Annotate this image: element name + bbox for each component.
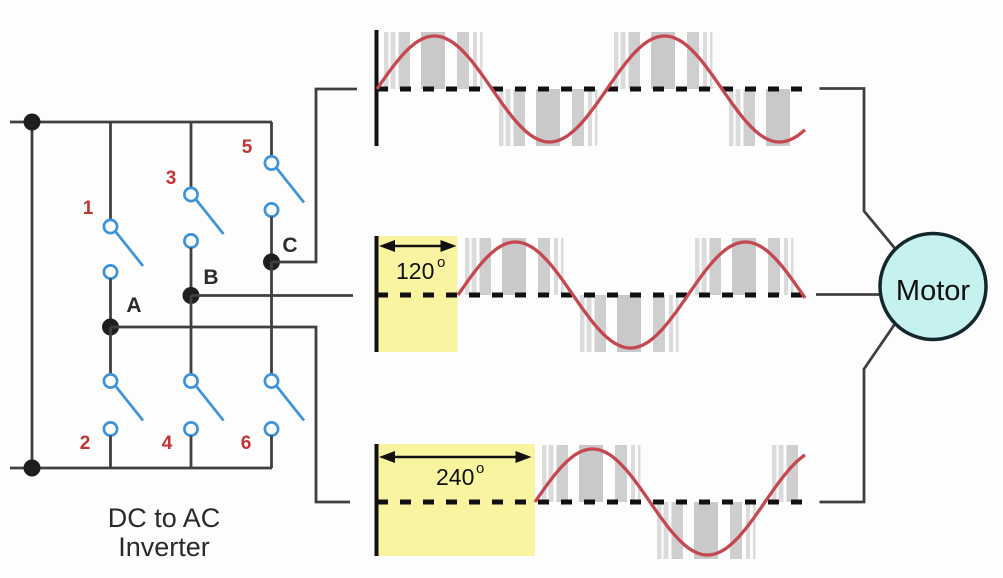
node C bbox=[263, 254, 280, 271]
wire leg2 top bbox=[190, 122, 193, 188]
wire left DC rail bbox=[31, 122, 34, 468]
wire switch1 to node A bbox=[109, 279, 112, 327]
svg-text:120: 120 bbox=[396, 258, 434, 284]
switch 3 bbox=[184, 188, 223, 248]
svg-text:A: A bbox=[126, 294, 141, 317]
phase C PWM pulse bars bbox=[542, 445, 798, 559]
svg-text:1: 1 bbox=[83, 198, 94, 219]
120 degree span box bbox=[378, 236, 458, 352]
phase B sine wave bbox=[458, 242, 805, 348]
phase C vertical axis bbox=[375, 444, 379, 556]
junction top-left DC bus bbox=[24, 114, 41, 131]
svg-text:4: 4 bbox=[162, 433, 173, 454]
switch 6 bbox=[265, 374, 304, 435]
phase C sine wave bbox=[535, 449, 805, 555]
wire switch4 to bottom rail bbox=[190, 436, 193, 468]
svg-text:o: o bbox=[476, 460, 484, 477]
wire node A to phase-C plot bbox=[111, 327, 351, 502]
phase A PWM pulse bars bbox=[384, 32, 790, 146]
wire leg1 top bbox=[109, 122, 112, 220]
phase B PWM pulse bars bbox=[465, 238, 794, 352]
junction bottom-left DC bus bbox=[24, 460, 41, 477]
switch 5 bbox=[265, 156, 304, 216]
wire leg3 top bbox=[270, 122, 273, 157]
240 degree arrow bbox=[379, 451, 532, 463]
wire phase B to motor bbox=[816, 293, 881, 296]
phase A sine wave bbox=[377, 36, 805, 142]
wire node B to switch 4 bbox=[190, 296, 193, 375]
svg-text:240: 240 bbox=[436, 464, 474, 490]
phase A zero line (dashed) bbox=[377, 87, 807, 92]
svg-text:5: 5 bbox=[242, 137, 253, 158]
phase C zero line (dashed) bbox=[377, 500, 807, 505]
wire node A to switch 2 bbox=[109, 327, 112, 375]
svg-text:DC to AC: DC to AC bbox=[108, 503, 221, 533]
phase B zero line (dashed) bbox=[377, 293, 807, 298]
wire DC+ top rail bbox=[10, 121, 272, 124]
switch 1 bbox=[104, 220, 143, 279]
wire switch2 to bottom rail bbox=[109, 436, 112, 468]
wire DC- bottom rail bbox=[10, 467, 272, 470]
wire node C to phase-A plot bbox=[272, 89, 358, 262]
switch 4 bbox=[184, 374, 223, 435]
phase B vertical axis bbox=[375, 236, 379, 352]
svg-text:2: 2 bbox=[80, 433, 91, 454]
svg-text:o: o bbox=[437, 254, 445, 271]
wire switch5 to node C bbox=[270, 217, 273, 262]
node A bbox=[102, 319, 119, 336]
240 degree span box bbox=[378, 444, 535, 556]
motor M bbox=[880, 234, 986, 340]
wire node B to phase-B plot bbox=[191, 294, 353, 297]
wire switch6 to bottom rail bbox=[270, 436, 273, 468]
svg-text:6: 6 bbox=[241, 433, 252, 454]
120 degree arrow bbox=[379, 240, 457, 252]
switch 2 bbox=[104, 374, 143, 435]
wire node C to switch 6 bbox=[270, 262, 273, 375]
svg-text:B: B bbox=[203, 266, 218, 289]
phase A vertical axis bbox=[375, 30, 379, 146]
wire switch3 to node B bbox=[190, 248, 193, 296]
svg-text:C: C bbox=[282, 234, 297, 257]
svg-text:Motor: Motor bbox=[896, 275, 970, 307]
svg-text:3: 3 bbox=[166, 168, 177, 189]
wire phase A to motor bbox=[820, 89, 896, 249]
wire phase C to motor bbox=[820, 325, 895, 503]
svg-text:Inverter: Inverter bbox=[118, 532, 210, 562]
node B bbox=[183, 287, 200, 304]
